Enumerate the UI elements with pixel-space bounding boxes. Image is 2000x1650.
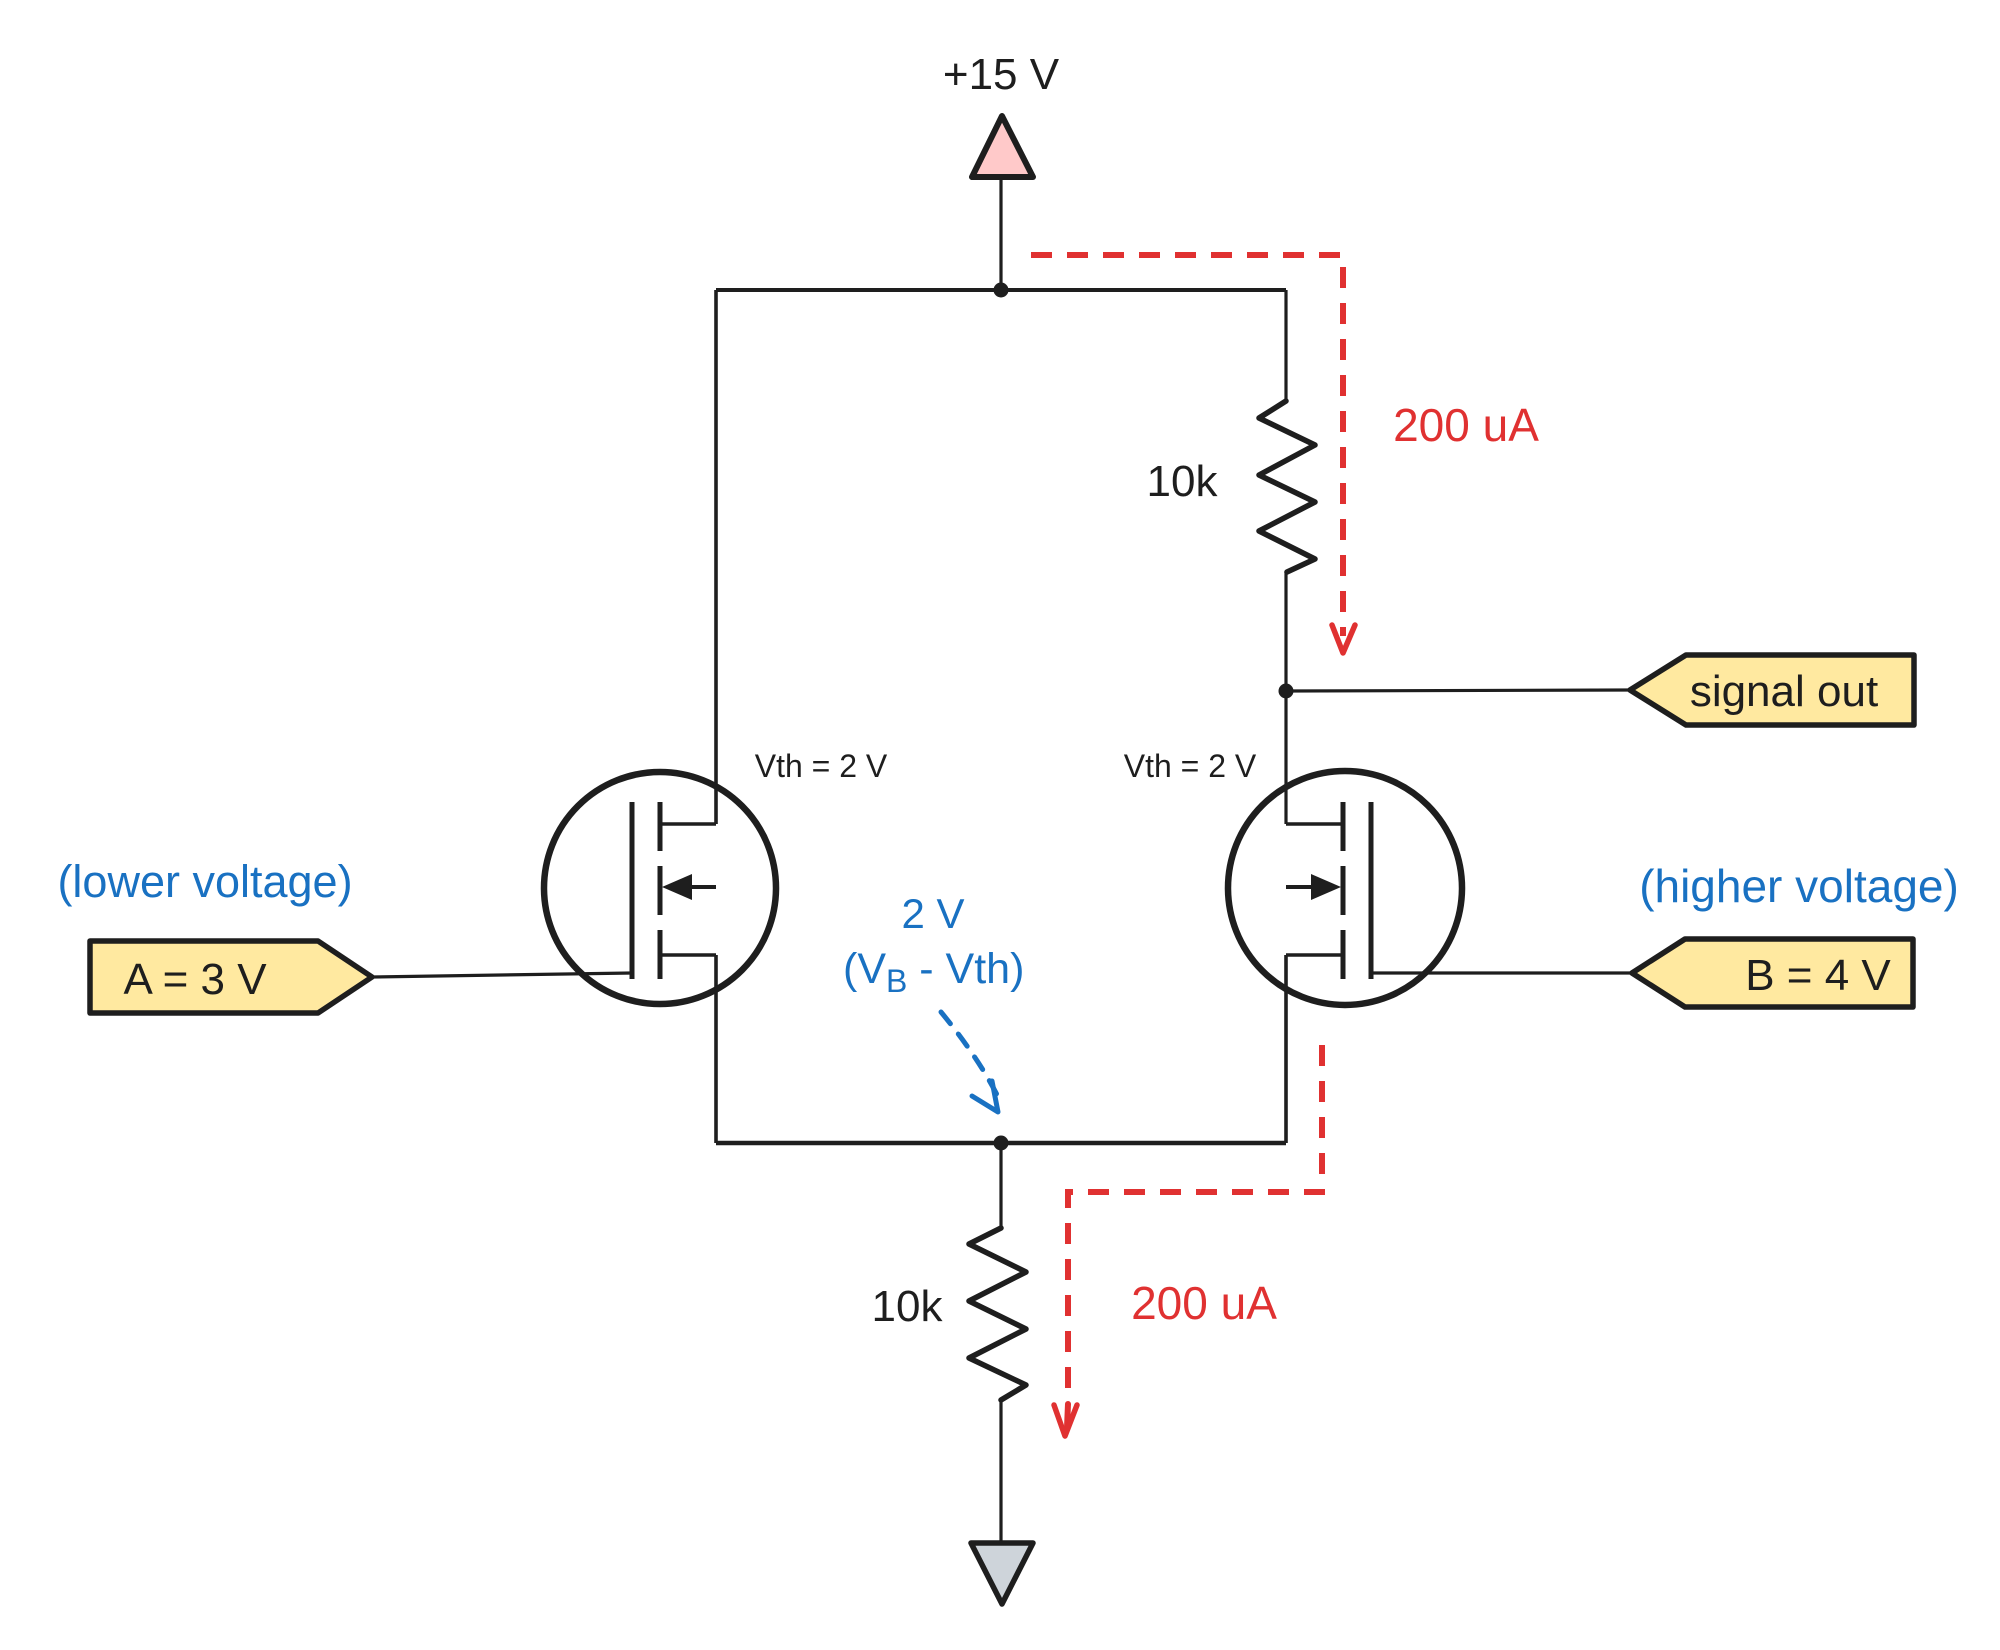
Q1 gate wire to A	[372, 973, 632, 977]
wire bottom rail	[716, 1141, 1286, 1146]
resistor R2 10k (tail)	[969, 1228, 1026, 1400]
node source junction	[994, 1136, 1009, 1151]
svg-text:200 uA: 200 uA	[1131, 1277, 1277, 1329]
wire output node to signal out flag	[1286, 690, 1630, 691]
Q1 substrate arrow	[672, 885, 716, 889]
Q1 drain stub	[660, 822, 716, 826]
node label flag: B = 4 V	[1632, 939, 1913, 1007]
transistor Q1 (left NMOS)	[372, 772, 776, 1004]
wire top rail to resistor R1	[1284, 290, 1287, 401]
transistor Q2 (right NMOS, mirrored)	[1228, 771, 1632, 1005]
annotation arrow blue dashed to source node	[941, 1012, 1002, 1105]
Q2 channel (dashed)	[1341, 802, 1346, 979]
wire left drain branch	[714, 290, 718, 824]
arrowhead 200 uA top	[1332, 625, 1355, 653]
Q1 body circle	[544, 772, 776, 1004]
svg-text:10k: 10k	[1147, 457, 1219, 506]
arrowhead 200 uA bottom	[1067, 1404, 1068, 1428]
svg-text:10k: 10k	[872, 1282, 944, 1331]
current annotation 200 uA top (red dashed path)	[1031, 255, 1343, 636]
wire left source to bottom rail	[714, 955, 718, 1143]
ground symbol	[971, 1543, 1033, 1604]
current annotation 200 uA bottom (red dashed path)	[1068, 1045, 1322, 1399]
svg-text:Vth = 2 V: Vth = 2 V	[1124, 748, 1257, 784]
wire source node to resistor R2	[999, 1143, 1002, 1228]
Q1 channel (dashed)	[658, 802, 663, 979]
node signal out junction	[1279, 684, 1294, 699]
svg-text:+15 V: +15 V	[943, 50, 1060, 99]
svg-text:200 uA: 200 uA	[1393, 399, 1539, 451]
wire top rail	[716, 288, 1286, 292]
node top supply junction	[994, 283, 1009, 298]
Q2 drain stub	[1286, 822, 1343, 826]
wire power to top rail	[999, 176, 1002, 290]
Q2 gate bar	[1369, 802, 1374, 979]
Q2 source stub	[1286, 953, 1343, 957]
wire R1 to output node / right drain	[1284, 572, 1287, 824]
Q1 gate bar	[630, 802, 635, 979]
svg-text:signal out: signal out	[1690, 667, 1878, 716]
svg-text:(lower voltage): (lower voltage)	[57, 856, 352, 907]
svg-text:2 V: 2 V	[901, 890, 964, 937]
Q2 body circle	[1228, 771, 1462, 1005]
Q2 gate wire to B	[1371, 971, 1632, 974]
node label flag: signal out	[1630, 655, 1914, 725]
svg-text:A = 3 V: A = 3 V	[123, 955, 267, 1004]
arrowhead blue	[972, 1081, 998, 1112]
node label flag: A = 3 V	[90, 941, 372, 1013]
Q1 source stub	[660, 953, 716, 957]
wire right source to bottom rail	[1284, 955, 1288, 1143]
Q2 substrate arrow	[1286, 885, 1331, 889]
svg-text:B = 4 V: B = 4 V	[1745, 951, 1891, 1000]
resistor R1 10k (drain load)	[1259, 401, 1315, 572]
svg-text:(higher voltage): (higher voltage)	[1639, 860, 1959, 912]
power symbol +15V (pink triangle)	[972, 116, 1033, 177]
wire R2 to ground	[999, 1400, 1002, 1543]
svg-text:Vth = 2 V: Vth = 2 V	[755, 748, 888, 784]
svg-text:(VB - Vth): (VB - Vth)	[843, 945, 1024, 999]
